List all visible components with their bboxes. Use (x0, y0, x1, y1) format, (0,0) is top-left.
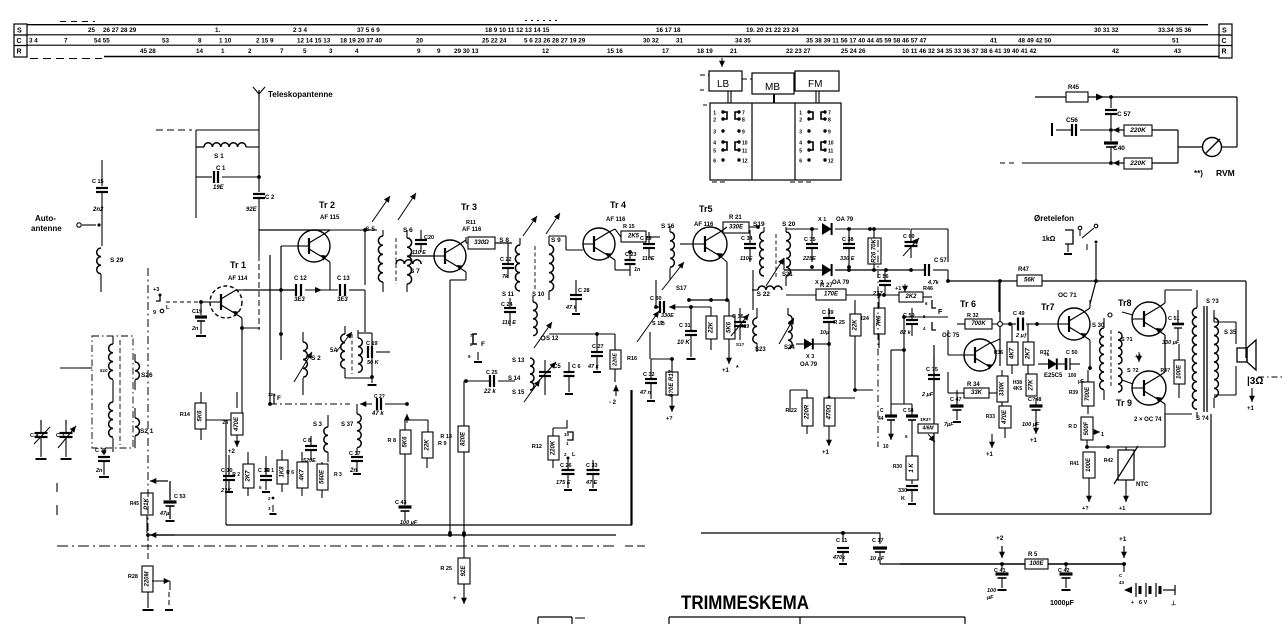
svg-text:15 16: 15 16 (607, 48, 623, 55)
svg-text:5K6: 5K6 (403, 436, 409, 448)
node trimmer arrows S8 S9 (523, 213, 560, 236)
svg-text:1.: 1. (215, 27, 221, 34)
svg-text:1kΩ: 1kΩ (1042, 236, 1056, 243)
svg-text:10 11 46 32 34 35 33 36 37 38: 10 11 46 32 34 35 33 36 37 38 6 41 39 40… (902, 48, 1037, 55)
svg-text:C 17: C 17 (872, 538, 884, 544)
resistor R8 5K6 (387, 420, 428, 505)
wire Tr1 emitter (236, 314, 260, 420)
node S19 S20 core (775, 234, 777, 278)
capacitor C48 100uF (1022, 397, 1043, 444)
node pins 10 1 2 L (564, 432, 576, 460)
coil S20w (786, 227, 790, 286)
svg-text:8: 8 (828, 118, 831, 124)
svg-text:43: 43 (1119, 580, 1125, 585)
svg-text:5K6: 5K6 (727, 321, 733, 333)
svg-text:220K: 220K (1129, 127, 1147, 134)
svg-text:Øretelefon: Øretelefon (1034, 214, 1074, 223)
svg-text:9: 9 (437, 48, 441, 55)
svg-text:2 × OC 74: 2 × OC 74 (1134, 417, 1162, 423)
svg-text:510: 510 (100, 368, 108, 373)
svg-text:R28: R28 (128, 574, 138, 580)
svg-text:+1: +1 (822, 450, 830, 456)
resistor R18 22K (706, 307, 717, 350)
svg-text:AF 114: AF 114 (228, 276, 248, 282)
svg-text:9: 9 (742, 130, 745, 136)
svg-text:+1: +1 (986, 452, 994, 458)
node stray dash marks (56, 483, 58, 515)
svg-text:R: R (17, 49, 22, 56)
wire Tr5 emitter junction (687, 298, 729, 302)
resistor R24 (859, 293, 885, 348)
resistor R5 100E (1025, 552, 1048, 569)
resistor R13 820E (440, 381, 469, 535)
node +1 tap (1135, 352, 1142, 362)
node pins +3 9 (153, 287, 170, 316)
svg-text:L: L (166, 305, 170, 311)
wire dashed vertical x878 (877, 240, 879, 447)
svg-text:700K: 700K (971, 321, 986, 327)
svg-text:R16: R16 (627, 356, 637, 362)
svg-text:47 k: 47 k (371, 411, 384, 417)
svg-text:2 µF: 2 µF (921, 392, 934, 398)
svg-text:C 43: C 43 (395, 500, 407, 506)
node title TRIMMESKEMA (681, 592, 809, 614)
svg-text:6: 6 (925, 301, 928, 306)
transistor Tr7 (1058, 308, 1090, 340)
svg-text:1: 1 (221, 48, 225, 55)
wire osc bus (827, 344, 831, 400)
svg-text:R33: R33 (986, 414, 995, 420)
node +2 arrow (609, 385, 619, 406)
wire Tr5 base (680, 243, 693, 245)
wire audio net y447 (1085, 414, 1165, 449)
capacitor C5 variable (536, 360, 561, 395)
wire tuning bus (41, 420, 66, 425)
capacitor C27 47k (587, 332, 604, 372)
svg-text:6 V: 6 V (1139, 600, 1148, 606)
capacitor C57 4k7 (913, 258, 948, 286)
svg-text:+1: +1 (1247, 406, 1255, 412)
svg-text:C 29: C 29 (640, 236, 652, 242)
svg-text:8: 8 (198, 38, 202, 45)
svg-text:100E: 100E (1177, 364, 1183, 379)
node Tr3 label (461, 202, 482, 233)
svg-text:C 1: C 1 (216, 166, 226, 172)
svg-text:Tr 9: Tr 9 (1116, 398, 1132, 408)
node S33 label (1206, 299, 1219, 305)
wire C15 to S29 (101, 192, 103, 246)
wire chassis dash right (625, 545, 648, 547)
diode D2 OA79 (815, 264, 850, 286)
node pins 2 3 (268, 496, 277, 514)
node earphone 1k (1042, 224, 1098, 254)
svg-text:C 14: C 14 (95, 448, 108, 454)
coil S26 (135, 354, 153, 390)
capacitor C57b (1105, 97, 1131, 118)
svg-text:100: 100 (1068, 373, 1077, 379)
node S30 label (1092, 313, 1112, 329)
wire rail bottom line (30, 57, 1219, 59)
wire Tr3 emitter down (448, 268, 466, 535)
resistor R27 170E (786, 283, 899, 300)
svg-text:700E: 700E (1085, 386, 1091, 401)
coil S19w (760, 227, 764, 276)
svg-text:100E: 100E (1086, 457, 1092, 472)
svg-text:R47: R47 (1018, 267, 1030, 273)
svg-text:S 7: S 7 (410, 268, 420, 275)
svg-text:Tr 6: Tr 6 (960, 299, 976, 309)
svg-text:11: 11 (742, 149, 748, 155)
resistor R47 56K (1017, 267, 1042, 286)
capacitor C37 (349, 451, 363, 474)
svg-text:C 57: C 57 (1117, 111, 1131, 118)
svg-text:C56: C56 (1066, 117, 1078, 124)
svg-text:S ?1: S ?1 (1121, 337, 1133, 343)
svg-text:S21: S21 (782, 272, 793, 278)
wire speaker bottom (1214, 366, 1236, 395)
svg-text:3: 3 (799, 130, 802, 136)
capacitor C1 19E (213, 166, 261, 191)
svg-text:R 6: R 6 (286, 470, 294, 476)
svg-text:27K: 27K (1029, 379, 1035, 392)
node +1 speaker (1247, 388, 1255, 412)
svg-text:C 22: C 22 (500, 257, 512, 263)
wire earphone down (1090, 244, 1098, 304)
capacitor C29 (640, 232, 655, 262)
capacitor C15 (92, 160, 108, 213)
node F pin mid (268, 392, 281, 404)
svg-text:7: 7 (828, 111, 831, 117)
transistor Tr4 (583, 228, 615, 260)
svg-text:47µ: 47µ (159, 511, 170, 517)
wire Tr2 collector (259, 228, 367, 234)
svg-text:Teleskopantenne: Teleskopantenne (268, 90, 333, 99)
wire enclosure bottom y525 (226, 390, 632, 525)
svg-text:R45: R45 (1068, 85, 1080, 91)
capacitor C16b (258, 456, 272, 492)
svg-text:3 4: 3 4 (29, 38, 38, 45)
svg-text:S ?2: S ?2 (1127, 368, 1139, 374)
wire detector bottom rail (784, 258, 913, 272)
wire S5 bus (365, 230, 377, 285)
node band switch body (703, 103, 841, 182)
node +1 R46 (895, 284, 908, 292)
svg-text:OC 71: OC 71 (1058, 292, 1077, 299)
svg-text:C 34: C 34 (741, 236, 754, 242)
resistor R25 22K (833, 300, 861, 390)
node junction arrow (1096, 94, 1104, 101)
resistor R26 70K (868, 227, 881, 272)
svg-text:C 28: C 28 (578, 288, 590, 294)
svg-text:S 11: S 11 (502, 292, 515, 298)
svg-text:C?48: C?48 (1028, 397, 1041, 403)
svg-text:H38: H38 (1013, 380, 1022, 386)
svg-text:7K6: 7K6 (877, 315, 883, 327)
svg-text:53: 53 (162, 38, 170, 45)
svg-text:19E: 19E (213, 185, 225, 191)
svg-text:4/6M: 4/6M (921, 426, 934, 432)
wire Tr2 emitter (324, 258, 330, 290)
wire band switch link (146, 268, 150, 537)
svg-text:1R3?: 1R3? (920, 417, 931, 422)
svg-text:R D: R D (1068, 424, 1077, 430)
svg-text:5: 5 (799, 149, 802, 155)
wire Tr9 base (1122, 380, 1133, 384)
node trimmer arrow S5 (372, 196, 390, 222)
svg-text:110 E: 110 E (502, 320, 516, 326)
svg-text:+: + (1131, 600, 1134, 606)
svg-text:S 8: S 8 (499, 237, 509, 244)
svg-text:X 3: X 3 (806, 354, 814, 360)
svg-text:1 K: 1 K (909, 463, 915, 473)
resistor R9 22K (422, 420, 447, 468)
svg-text:45 28: 45 28 (140, 48, 156, 55)
svg-text:C 3: C 3 (56, 433, 65, 439)
node S12 label (541, 336, 559, 342)
svg-text:TRIMMESKEMA: TRIMMESKEMA (681, 592, 809, 614)
coil S29 (97, 248, 124, 274)
svg-text:C 15: C 15 (92, 179, 104, 185)
node band box LB (700, 71, 742, 91)
wire C60 top (911, 229, 948, 262)
node R-row trimmer numbers (140, 48, 1182, 55)
svg-text:C40: C40 (1113, 145, 1125, 152)
svg-text:6?0E R17: 6?0E R17 (669, 369, 675, 397)
node Tr6 label (942, 299, 976, 339)
svg-text:1 10: 1 10 (219, 38, 232, 45)
svg-text:MB: MB (765, 82, 780, 93)
svg-text:*: * (736, 365, 739, 372)
svg-text:4: 4 (799, 141, 802, 147)
wire S20 to D1 (786, 228, 818, 230)
svg-text:R11: R11 (466, 220, 476, 226)
wire S6 to Tr3 (407, 255, 434, 257)
svg-text:2K7: 2K7 (246, 470, 252, 483)
svg-text:220R: 220R (805, 404, 811, 420)
svg-text:R14: R14 (180, 412, 191, 418)
svg-text:S 37: S 37 (341, 422, 354, 428)
svg-text:35 38 39 11 56 17 40 44 45 59: 35 38 39 11 56 17 40 44 45 59 58 46 57 4… (806, 38, 927, 45)
svg-text:2K5: 2K5 (627, 234, 640, 240)
capacitor C19b (191, 302, 207, 336)
svg-text:S1?: S1? (736, 342, 745, 347)
svg-text:OA 79: OA 79 (836, 217, 854, 223)
svg-text:C 27: C 27 (592, 344, 604, 350)
svg-text:F: F (481, 341, 485, 348)
svg-text:Auto-: Auto- (35, 214, 56, 223)
svg-text:5 6 23 26 28 27 19 29: 5 6 23 26 28 27 19 29 (524, 38, 586, 45)
svg-text:170E: 170E (824, 292, 839, 298)
svg-text:E25C5: E25C5 (1044, 373, 1063, 379)
capacitor C22 (500, 243, 514, 280)
capacitor C30 330E (650, 280, 711, 319)
svg-text:R36: R36 (994, 350, 1003, 356)
svg-text:S: S (1222, 28, 1227, 35)
svg-text:2 µƒ: 2 µƒ (1015, 333, 1027, 339)
wire audio left vertical (933, 345, 935, 514)
node S33 core (1204, 306, 1207, 412)
svg-text:R 15: R 15 (623, 224, 635, 230)
svg-text:**): **) (1194, 169, 1203, 178)
svg-text:4K5: 4K5 (1013, 386, 1022, 392)
coil S12w (533, 296, 537, 336)
wire AF top rail (999, 281, 1246, 312)
capacitor C56b (1052, 117, 1111, 136)
svg-text:6: 6 (713, 159, 716, 165)
svg-text:220K: 220K (551, 440, 557, 456)
capacitor C33 47E (585, 460, 600, 490)
svg-text:C: C (880, 408, 884, 414)
resistor R46 2K2 (899, 286, 933, 302)
node pointer arrow above LB (719, 58, 725, 67)
svg-text:R 25: R 25 (440, 566, 452, 572)
svg-text:S 3: S 3 (313, 422, 323, 428)
svg-text:820E: 820E (461, 431, 467, 446)
svg-text:C 31: C 31 (679, 323, 691, 329)
node S5 S6 core (395, 238, 397, 284)
wire Tr9 emitter (1159, 400, 1192, 414)
node S13 S14 S15 (508, 358, 540, 402)
svg-text:Tr8: Tr8 (1118, 298, 1132, 308)
capacitor C44 (878, 404, 897, 450)
node +2 supply (996, 535, 1005, 558)
resistor R33 470E (986, 406, 1011, 438)
wire Tr1 collector (236, 288, 283, 292)
svg-text:C 60: C 60 (903, 234, 915, 240)
svg-text:S 10: S 10 (532, 292, 545, 298)
svg-text:R30: R30 (893, 464, 902, 470)
node R8 top arrow (404, 414, 410, 423)
svg-text:LB: LB (717, 79, 730, 90)
node Teleskopantenne label (268, 90, 333, 99)
svg-text:110E: 110E (642, 256, 655, 262)
wire front horizontal (60, 367, 92, 369)
node +1 arrow R19 (722, 350, 739, 374)
wire Tr2 base (281, 246, 298, 290)
wire Tr3 collector (460, 237, 512, 244)
svg-text:220M: 220M (145, 570, 151, 587)
capacitor C13 3E3 (305, 276, 365, 332)
wire antenna horizontal (156, 129, 259, 131)
node S8 S9 core (534, 246, 536, 290)
node S20 label (782, 221, 796, 228)
capacitor C3 variable (56, 420, 76, 459)
capacitor C39 10u (820, 308, 835, 344)
node trimmer arrow S12 (534, 322, 552, 348)
svg-text:S19: S19 (753, 221, 765, 228)
capacitor C28 47k (565, 280, 590, 314)
svg-text:Tr7: Tr7 (1041, 302, 1055, 312)
svg-text:S 13: S 13 (512, 358, 525, 364)
coil S1 (196, 143, 259, 147)
capacitor C11 (832, 531, 849, 564)
svg-text:92E: 92E (246, 207, 258, 213)
node auto antenna connector (77, 223, 101, 227)
capacitor C32 47n (639, 357, 674, 401)
svg-text:S 15: S 15 (512, 390, 525, 396)
svg-text:21: 21 (730, 48, 738, 55)
capacitor C46 330K (898, 486, 918, 504)
wire C2 down dash (258, 198, 260, 330)
svg-text:18 19: 18 19 (697, 48, 713, 55)
wire D1 out (835, 227, 910, 231)
svg-text:100: 100 (987, 588, 996, 594)
svg-text:R 1: R 1 (266, 468, 274, 474)
svg-text:AF 115: AF 115 (320, 215, 340, 221)
wire rail S/C/R left label box (14, 24, 27, 57)
svg-text:500F: 500F (1084, 421, 1090, 435)
transistor Tr5 (693, 227, 727, 261)
svg-text:14: 14 (196, 48, 204, 55)
svg-text:AF 116: AF 116 (462, 227, 482, 233)
svg-text:Tr 3: Tr 3 (461, 202, 477, 212)
resistor R38 27K (1013, 352, 1050, 396)
coil S37 (341, 404, 361, 455)
svg-text:22 k: 22 k (483, 389, 496, 395)
svg-text:S17: S17 (676, 286, 687, 292)
svg-text:R45: R45 (130, 501, 139, 507)
resistor R31 6M (912, 417, 938, 446)
svg-text:C 26: C 26 (560, 463, 572, 469)
capacitor C59 82k (900, 308, 918, 336)
svg-text:4: 4 (355, 48, 359, 55)
capacitor C47 (944, 390, 964, 428)
node F tick (1086, 244, 1088, 250)
svg-text:25: 25 (88, 27, 96, 34)
svg-text:⊥: ⊥ (1171, 600, 1176, 607)
svg-text:R12: R12 (532, 444, 542, 450)
svg-text:+3: +3 (153, 287, 159, 293)
node S4 ground (368, 375, 377, 385)
svg-text:S2 1: S2 1 (140, 428, 154, 435)
svg-text:18 9 10 11 12 13 14 15: 18 9 10 11 12 13 14 15 (485, 27, 550, 34)
wire audio vertical x631 (630, 390, 632, 525)
wire R45 to corner (1088, 95, 1237, 99)
svg-text:3E3: 3E3 (294, 297, 305, 303)
node RVM label (1194, 168, 1235, 178)
svg-text:10 µF: 10 µF (870, 556, 885, 562)
svg-text:C 12: C 12 (294, 276, 307, 282)
resistor R14 5K6 (180, 392, 206, 440)
svg-text:C 25: C 25 (486, 370, 498, 376)
svg-text:33K: 33K (971, 390, 983, 396)
capacitor C38 330E (840, 229, 855, 269)
svg-text:C 11: C 11 (836, 538, 847, 544)
wire Tr8 base (1122, 312, 1133, 315)
svg-text:47 E: 47 E (585, 480, 598, 486)
wire S1 left leg (196, 130, 212, 218)
svg-text:S 5: S 5 (365, 226, 375, 233)
svg-text:R41: R41 (1070, 461, 1079, 467)
wire vertical x281 (279, 290, 283, 360)
node Tr7 label (1041, 292, 1077, 312)
node trimmer S17 (662, 262, 687, 292)
resistor R12 220K (532, 420, 567, 468)
svg-text:RVM: RVM (1216, 168, 1235, 178)
wire Tr6 base (948, 330, 965, 355)
svg-text:10 K: 10 K (677, 340, 690, 346)
capacitor C35 (802, 227, 818, 269)
svg-text:L: L (572, 452, 576, 458)
svg-text:S 1: S 1 (214, 153, 224, 160)
node S34 label (1196, 416, 1209, 422)
resistor R15 (621, 231, 646, 242)
svg-text:4: 4 (713, 141, 716, 147)
coil S30 primary (1100, 318, 1104, 400)
svg-text:+1: +1 (1119, 506, 1125, 512)
svg-text:11: 11 (828, 149, 834, 155)
coil S7 (396, 260, 421, 275)
